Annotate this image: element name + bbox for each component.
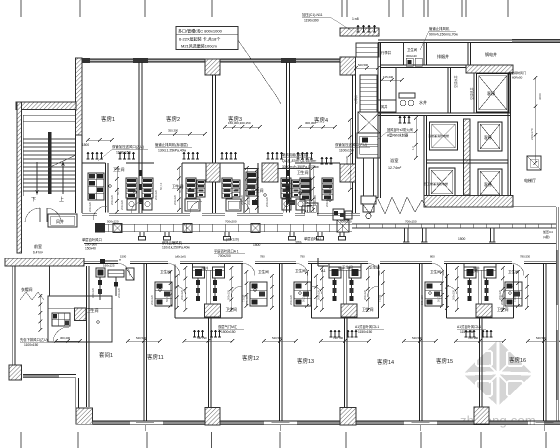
door arc room1 bath: [93, 206, 107, 220]
svg-text:客房14: 客房14: [377, 358, 394, 366]
annotation 加压C1-N11: [302, 12, 352, 31]
toilet fixtures upper modules: [127, 199, 136, 210]
svg-text:6-22X层起装 卡,共18个: 6-22X层起装 卡,共18个: [179, 36, 220, 42]
corridor south line: [84, 243, 556, 245]
fan unit box: [357, 133, 380, 158]
svg-text:客梯: 客梯: [484, 182, 492, 187]
annotation pressurized air outlet right: [335, 142, 370, 153]
svg-text:1500: 1500: [458, 237, 466, 241]
dim 1500 near stair: [82, 143, 89, 147]
svg-text:加压C4: 加压C4: [543, 229, 553, 234]
suite bathroom box: [48, 296, 112, 342]
air shaft box 风井: [48, 214, 77, 227]
svg-text:200x120: 200x120: [265, 196, 269, 207]
svg-text:200x120: 200x120: [173, 194, 177, 205]
bathroom module room1 (near stair) riser grid: [88, 173, 104, 200]
svg-text:卫生间: 卫生间: [430, 269, 441, 274]
risers at party wall 1|2: [126, 178, 137, 198]
svg-text:多口I管槽I浅C 800x1000: 多口I管槽I浅C 800x1000: [178, 28, 223, 34]
svg-text:1500: 1500: [82, 143, 89, 147]
elevator 员工梯兼消防电梯: [429, 168, 455, 196]
arrows below ramp: [357, 25, 377, 32]
svg-text:220x170: 220x170: [530, 128, 534, 140]
water room pumps: [399, 93, 415, 106]
pressurization duct inlet hatched: [340, 28, 379, 36]
svg-text:700x150: 700x150: [405, 220, 417, 224]
elevator 客梯 upper right: [478, 122, 502, 151]
svg-text:200x120: 200x120: [325, 196, 329, 207]
svg-text:7.0,50: 7.0,50: [378, 294, 382, 302]
floor drains: [109, 185, 111, 187]
door arcs module 345: [312, 286, 323, 297]
shaft hatched room4 bath: [340, 164, 356, 182]
svg-text:200x120: 200x120: [240, 194, 244, 205]
svg-text:1500x150: 1500x150: [221, 330, 236, 334]
svg-text:700x200: 700x200: [225, 220, 237, 224]
mini dim row above shaft left: [223, 125, 262, 129]
duct branch drops: [403, 228, 496, 242]
svg-text:200x120: 200x120: [500, 294, 504, 305]
svg-text:伊托云喷风机: 伊托云喷风机: [162, 240, 182, 245]
svg-text:卫生间: 卫生间: [362, 307, 374, 312]
svg-text:锅电井: 锅电井: [485, 51, 497, 57]
svg-text:200x120: 200x120: [420, 294, 424, 305]
wall band hatched: [466, 65, 513, 73]
suite corridor annotation: [100, 259, 120, 268]
svg-text:740 790: 740 790: [197, 336, 208, 340]
fire dampers on duct: [113, 224, 122, 233]
svg-text:200x120: 200x120: [150, 294, 154, 305]
svg-text:M21风选磨装100cm: M21风选磨装100cm: [181, 43, 217, 49]
dim string room1: [115, 166, 119, 214]
dim strings module 2|3: [177, 166, 181, 212]
svg-text:50,7.0: 50,7.0: [159, 182, 163, 190]
dim strings module 480: [455, 266, 459, 312]
svg-text:540,540: 540,540: [136, 336, 147, 340]
svg-text:卫生间: 卫生间: [295, 268, 306, 273]
svg-text:1-0: 1-0: [411, 146, 415, 150]
column bottom-left corner: [9, 365, 22, 380]
corridor hanging diffusers left run: [139, 232, 346, 240]
svg-text:卫生间: 卫生间: [508, 269, 519, 274]
svg-text:(d0x1z0): (d0x1z0): [175, 255, 186, 259]
mirrored riser groups module 208.5: [193, 267, 205, 301]
suite dim string: [39, 294, 43, 332]
wall between water room and AC shafts: [448, 68, 474, 114]
svg-text:200x80: 200x80: [345, 155, 349, 165]
annotation pressurized air outlet left: [98, 144, 148, 161]
corridor north wall: [82, 213, 360, 215]
partition T bases at bottom wall: [136, 423, 554, 431]
elevator 消梯兼消防电梯: [430, 122, 458, 150]
column upper wall right: [340, 57, 356, 75]
svg-text:12.74m²: 12.74m²: [388, 166, 402, 170]
svg-text:740 790: 740 790: [333, 336, 344, 340]
svg-text:7.0,50: 7.0,50: [513, 294, 517, 302]
svg-text:200x120: 200x120: [289, 294, 293, 305]
svg-text:540,540: 540,540: [272, 336, 283, 340]
lower annotations leader texts: [218, 324, 244, 334]
svg-text:200x120: 200x120: [313, 194, 317, 205]
dim strings module 208.5: [184, 266, 188, 312]
grid ticks bottom: [21, 432, 546, 448]
annotation exhaust fan mid: [155, 142, 192, 153]
bathroom side walls module 345: [312, 264, 379, 318]
shaft hatched 3|4: [262, 163, 278, 182]
svg-text:50,7.0: 50,7.0: [328, 187, 332, 195]
svg-text:1190x390: 1190x390: [304, 19, 319, 23]
right vertical dim: [534, 76, 538, 165]
svg-text:540,540: 540,540: [412, 336, 423, 340]
right block vertical walls top rooms: [378, 43, 512, 113]
svg-text:30%: 30%: [295, 241, 302, 245]
mirrored riser groups module 345: [329, 267, 341, 301]
svg-text:110x1k,250Pa,40w: 110x1k,250Pa,40w: [162, 246, 190, 250]
extra blobs module 3|4: [252, 182, 295, 205]
svg-text:200x120: 200x120: [247, 194, 251, 205]
svg-text:200x120: 200x120: [363, 289, 367, 300]
right block top wall: [378, 40, 512, 43]
svg-text:龙堂闸时风门: 龙堂闸时风门: [508, 70, 526, 75]
svg-text:加压(C1)-N11: 加压(C1)-N11: [302, 12, 323, 17]
shaft hatched suite bath: [75, 308, 87, 321]
bottom exterior wall with windows: [93, 421, 560, 425]
door arcs module 480: [447, 286, 458, 297]
second top line modules: [244, 168, 258, 170]
svg-text:套间1: 套间1: [99, 351, 113, 359]
annotation box duct spec: [176, 27, 281, 105]
svg-text:风井: 风井: [56, 218, 64, 224]
side fixture clusters lower band: [155, 282, 172, 306]
svg-text:200x120: 200x120: [452, 289, 456, 300]
bathroom top walls upper band extra segments: [126, 162, 340, 164]
svg-text:前室: 前室: [34, 243, 42, 249]
svg-text:60Rx50: 60Rx50: [512, 76, 523, 80]
ramp box: [356, 43, 379, 57]
mini dim rows above bottom wall: [183, 339, 235, 343]
riser cluster at corridor junction: [333, 209, 352, 232]
suite left exterior wall: [12, 266, 15, 375]
svg-text:300,300: 300,300: [305, 121, 316, 125]
svg-text:客房13: 客房13: [297, 357, 314, 365]
svg-text:A1: A1: [321, 269, 326, 273]
svg-text:1100x150: 1100x150: [24, 343, 38, 347]
svg-text:下: 下: [31, 197, 36, 203]
svg-text:空调机井: 空调机井: [469, 87, 474, 100]
duct down to corridor: [361, 158, 376, 219]
svg-text:3000: 3000: [538, 93, 542, 100]
core bottom wall hatched: [424, 196, 513, 208]
svg-text:200x120: 200x120: [120, 199, 124, 210]
svg-text:200x120: 200x120: [245, 294, 249, 305]
svg-text:3300m³/h,350Pa,0.73kw: 3300m³/h,350Pa,0.73kw: [282, 165, 319, 169]
suite corridor cluster: [96, 268, 134, 300]
svg-text:1:n8: 1:n8: [352, 17, 359, 21]
closet partition: [20, 266, 50, 300]
right wing window band: [512, 40, 560, 43]
svg-text:客房15: 客房15: [436, 357, 453, 365]
door openings corridor north wall: [97, 213, 317, 216]
svg-text:350,300: 350,300: [168, 129, 179, 133]
svg-text:卫生间: 卫生间: [113, 167, 125, 172]
svg-text:电梯厅: 电梯厅: [524, 177, 536, 183]
arrow clusters upper band: [87, 152, 104, 159]
corridor west wall of rooms: [87, 266, 90, 407]
svg-text:1500: 1500: [253, 243, 261, 247]
svg-text:700x200: 700x200: [218, 254, 231, 258]
svg-text:780 380: 780 380: [468, 336, 479, 340]
sub boxes module 2|3: [185, 199, 241, 211]
svg-text:平层百叶风口A 1: 平层百叶风口A 1: [214, 249, 239, 254]
svg-text:卫生间: 卫生间: [297, 170, 309, 175]
svg-text:客梯: 客梯: [484, 135, 492, 140]
svg-text:500x120: 500x120: [107, 220, 119, 224]
core center wall hatched: [464, 119, 471, 195]
party wall pipe blobs upper modules: [140, 170, 290, 204]
svg-text:1150x150: 1150x150: [358, 330, 372, 334]
risers module 2|3: [186, 178, 196, 198]
party walls lower rooms: [144, 318, 546, 421]
column bottom wall 15|16: [474, 407, 489, 424]
svg-text:上: 上: [59, 196, 64, 203]
lobby bottom line: [513, 206, 556, 208]
svg-text:200x120: 200x120: [317, 289, 321, 300]
stair treads: [23, 115, 76, 196]
dim strings module 345: [320, 266, 324, 312]
fire door annotation: [508, 70, 526, 80]
svg-text:780: 780: [260, 255, 265, 259]
svg-text:回风百叶x2防火阀: 回风百叶x2防火阀: [387, 127, 413, 132]
svg-text:50,7.0: 50,7.0: [165, 294, 169, 302]
bottom wall left portion with window: [23, 375, 59, 378]
suite vanity grid: [52, 313, 70, 326]
svg-text:卫生间: 卫生间: [467, 268, 478, 273]
duct transition box: [358, 112, 380, 133]
svg-text:单层百叶风口: 单层百叶风口: [82, 237, 102, 242]
svg-text:卫生间: 卫生间: [160, 269, 171, 274]
lower bathroom module at x=480: [464, 264, 496, 305]
svg-text:300,200: 300,200: [60, 336, 71, 340]
svg-text:客房11: 客房11: [147, 353, 164, 361]
svg-text:90m³h,150m/s,70w: 90m³h,150m/s,70w: [429, 33, 458, 37]
svg-text:衣帽间: 衣帽间: [21, 287, 33, 292]
svg-text:卫生间: 卫生间: [258, 269, 269, 274]
fresh air unit text block: [282, 152, 319, 169]
svg-text:客房1: 客房1: [101, 115, 115, 123]
svg-text:540,540: 540,540: [536, 336, 547, 340]
svg-text:200x120: 200x120: [110, 194, 114, 205]
corridor duct right run: [352, 224, 556, 228]
svg-text:50,7.0: 50,7.0: [178, 185, 182, 193]
svg-text:zhulong.com: zhulong.com: [460, 413, 536, 428]
svg-text:消梯兼消防电梯: 消梯兼消防电梯: [428, 133, 449, 138]
elevator 客梯 lower right: [478, 169, 502, 197]
svg-text:水井: 水井: [419, 99, 427, 105]
water shaft room: [396, 68, 427, 113]
svg-text:1500: 1500: [120, 255, 127, 259]
svg-text:300x120: 300x120: [91, 287, 95, 298]
shaft hatched 2|3: [206, 163, 220, 182]
watermark logo zhulong pinwheel: [463, 340, 533, 406]
dim rows across rooms1-3: [158, 132, 207, 136]
svg-text:200x120: 200x120: [88, 201, 92, 212]
svg-text:客房12: 客房12: [242, 354, 259, 362]
svg-text:卫生间: 卫生间: [497, 307, 509, 312]
svg-text:125,240: 125,240: [383, 75, 394, 79]
party walls between upper guest rooms: [139, 62, 356, 213]
dim string module 3|4: [311, 166, 315, 212]
riser stack left of shaft 3|4: [246, 172, 257, 196]
svg-text:200x120: 200x120: [117, 287, 121, 298]
lower rooms top wall: [84, 261, 556, 263]
svg-text:管道止排风机: 管道止排风机: [429, 26, 450, 31]
core mid wall: [427, 160, 509, 163]
corridor supply duct left run: [95, 223, 352, 233]
svg-text:780,530: 780,530: [520, 255, 531, 259]
svg-text:(4层): (4层): [543, 234, 550, 239]
air shaft small: [378, 100, 396, 112]
vestibule label 前室: [33, 243, 43, 255]
bathroom walls module 2|3: [182, 163, 244, 213]
svg-text:员工梯兼消防电梯: 员工梯兼消防电梯: [424, 181, 448, 186]
svg-text:300x120: 300x120: [406, 54, 417, 58]
section mark A1 upper: [302, 206, 311, 214]
right exterior wall: [556, 207, 559, 421]
suite bath door arc: [53, 327, 69, 341]
svg-text:A1式百叶风口L1: A1式百叶风口L1: [457, 324, 481, 329]
svg-text:风井: 风井: [381, 104, 387, 109]
annotation by duct: [377, 127, 414, 140]
bathroom wall room1: [82, 163, 108, 213]
column at step: [76, 408, 93, 424]
svg-text:50,7.0: 50,7.0: [302, 294, 306, 302]
svg-text:150,300,300,150: 150,300,300,150: [228, 121, 251, 125]
svg-text:管道止排风机(标准层): 管道止排风机(标准层): [155, 142, 188, 147]
risers module 3|4: [281, 178, 291, 198]
break zigzag line: [362, 197, 426, 214]
vertical fresh air duct: [360, 75, 377, 112]
svg-text:新风机组(标准层): 新风机组(标准层): [282, 152, 308, 157]
room4 lower fixture: [305, 203, 318, 214]
svg-text:QL 乱,87m³ QL 65.9m³: QL 乱,87m³ QL 65.9m³: [282, 158, 317, 163]
top exterior wall with windows: [76, 58, 357, 63]
annotation top right fan: [420, 26, 458, 50]
svg-text:排烟井: 排烟井: [437, 53, 449, 59]
mini dim row above shaft right: [298, 125, 337, 129]
svg-text:1100x150: 1100x150: [339, 149, 354, 153]
svg-text:50,7.0: 50,7.0: [437, 294, 441, 302]
svg-text:行李井: 行李井: [381, 50, 392, 55]
bathroom walls module 3|4: [258, 163, 310, 213]
svg-text:790: 790: [300, 255, 305, 259]
party wall stubs above: [144, 264, 546, 318]
svg-text:520,500: 520,500: [358, 63, 369, 67]
column bottom wall 11|12: [205, 408, 220, 426]
svg-text:双层气门M汇: 双层气门M汇: [218, 324, 238, 329]
bath room 浴室 of suite: [378, 112, 402, 198]
svg-text:客房4: 客房4: [314, 116, 328, 124]
door openings lower band top wall: [118, 261, 524, 276]
small wc fixtures: [406, 54, 422, 66]
lower bathroom module at x=345: [329, 264, 361, 305]
core top wall: [378, 113, 510, 116]
door arcs module 2|3: [190, 201, 202, 213]
corridor annotations: [82, 237, 102, 251]
mirrored riser groups module 480: [464, 267, 476, 301]
svg-text:先包下排风口(乙U): 先包下排风口(乙U): [20, 337, 48, 342]
svg-text:200x120: 200x120: [180, 289, 184, 300]
svg-text:卫生间: 卫生间: [342, 265, 353, 270]
small box right: [527, 156, 541, 170]
svg-text:客房16: 客房16: [509, 356, 526, 364]
suite entry hatched band: [5, 258, 84, 266]
svg-text:50,7.0: 50,7.0: [250, 184, 254, 192]
svg-text:布草井: 布草井: [353, 95, 358, 104]
svg-text:130d,1.25kPa,40w: 130d,1.25kPa,40w: [158, 149, 187, 153]
grid ticks top: [21, 0, 508, 17]
column bottom wall 13|14: [340, 408, 356, 426]
door arcs modules 140 & 288: [131, 202, 142, 213]
bathroom side walls module 480: [447, 264, 514, 318]
svg-text:7.0,50: 7.0,50: [242, 294, 246, 302]
svg-text:200x120: 200x120: [154, 189, 158, 200]
svg-text:客房2: 客房2: [166, 115, 180, 123]
shaft hatched lower module 345: [341, 304, 357, 317]
column upper wall left: [205, 59, 220, 75]
svg-text:(d0x1z0): (d0x1z0): [226, 238, 239, 242]
svg-text:200x120: 200x120: [227, 289, 231, 300]
stair lower double doors: [25, 208, 61, 222]
shaft hatched lower module 208.5: [205, 304, 221, 317]
svg-text:A型RkN水封器: A型RkN水封器: [387, 133, 409, 138]
stair direction arrows: [31, 162, 64, 203]
lower bathroom module at x=208.5: [193, 264, 225, 305]
stair enclosure walls: [16, 58, 82, 253]
core outer walls: [424, 74, 511, 208]
dims in service block: [380, 78, 404, 82]
svg-text:双管加压送风口(乙U): 双管加压送风口(乙U): [112, 144, 144, 149]
section mark A1 lower: [318, 258, 328, 273]
shaft hatched lower module 480: [476, 304, 492, 317]
svg-text:A1式百叶风口L1: A1式百叶风口L1: [355, 324, 379, 329]
svg-text:160x125: 160x125: [103, 264, 115, 268]
svg-text:800: 800: [430, 255, 435, 259]
svg-text:客梯: 客梯: [487, 90, 495, 96]
door arc module 3|4: [302, 201, 314, 213]
bathroom side walls module 208.5: [175, 264, 242, 318]
dims right of room4: [348, 118, 352, 192]
svg-text:暖井: 暖井: [202, 265, 209, 270]
step wall: [76, 378, 79, 408]
svg-text:150x40: 150x40: [85, 247, 96, 251]
svg-text:卫生间: 卫生间: [407, 47, 418, 52]
door arcs module 208.5: [175, 286, 186, 297]
elevator top 客梯: [477, 74, 510, 113]
svg-text:浴室: 浴室: [390, 157, 398, 164]
svg-text:卫生间: 卫生间: [226, 307, 238, 312]
svg-text:空调水井: 空调水井: [453, 75, 458, 88]
svg-text:6.4?m²: 6.4?m²: [33, 251, 43, 255]
svg-text:50,7.0: 50,7.0: [116, 187, 120, 195]
